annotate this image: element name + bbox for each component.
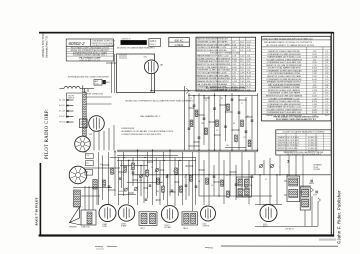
svg-text:R1: R1 xyxy=(100,164,102,166)
svg-text:1.25: 1.25 xyxy=(247,70,251,72)
svg-text:600 KC: 600 KC xyxy=(175,38,184,42)
node label speaker xyxy=(69,226,90,229)
svg-text:C12: C12 xyxy=(243,137,246,139)
svg-text:1.75: 1.75 xyxy=(325,54,329,56)
svg-text:C-31: C-31 xyxy=(313,82,317,84)
svg-text:LONG ISLAND CITY, N.Y.: LONG ISLAND CITY, N.Y. xyxy=(79,59,101,62)
svg-text:VOLUME CONTROL 1 MEG W/SWITCH: VOLUME CONTROL 1 MEG W/SWITCH xyxy=(197,58,231,60)
svg-text:2.8: 2.8 xyxy=(325,62,328,64)
svg-text:C9: C9 xyxy=(216,130,218,132)
svg-text:C-520: C-520 xyxy=(312,57,317,59)
svg-text:R-10: R-10 xyxy=(247,64,251,66)
tube V1 converter xyxy=(144,57,164,74)
wire bus xyxy=(199,195,272,197)
svg-text:1-31: 1-31 xyxy=(247,56,251,58)
svg-text:ITEM PILOT PART NO AND DESCRI: ITEM PILOT PART NO AND DESCRIPTION OF PA… xyxy=(263,37,314,40)
svg-text:0.7: 0.7 xyxy=(325,71,328,73)
wire filament bus xyxy=(255,226,318,228)
svg-text:VOL: VOL xyxy=(86,155,89,157)
svg-text:R-18: R-18 xyxy=(247,73,251,75)
wire xyxy=(127,182,162,184)
svg-text:A B C: A B C xyxy=(150,40,156,43)
node label speaker plug xyxy=(314,164,323,172)
svg-text:1.25: 1.25 xyxy=(232,42,236,44)
node title block box xyxy=(66,39,114,61)
svg-text:C3: C3 xyxy=(113,173,115,175)
svg-text:VOLUME CONTROL 1 MEG W/SWITCH: VOLUME CONTROL 1 MEG W/SWITCH xyxy=(266,59,302,61)
wire bus xyxy=(110,157,196,159)
svg-text:C4: C4 xyxy=(205,100,207,102)
svg-text:250: 250 xyxy=(226,145,229,147)
svg-text:1.25: 1.25 xyxy=(240,84,244,86)
svg-text:.05: .05 xyxy=(130,169,132,171)
node label IF cans xyxy=(140,228,188,230)
node label loop note xyxy=(84,93,103,96)
svg-text:PILOT RADIO CORP.: PILOT RADIO CORP. xyxy=(45,109,50,159)
svg-text:3-510: 3-510 xyxy=(312,96,317,98)
node KC alignment box xyxy=(169,38,190,47)
node blacked stamp bar xyxy=(117,38,155,50)
svg-text:2.8: 2.8 xyxy=(325,112,328,114)
svg-text:150V: 150V xyxy=(314,195,318,197)
svg-text:COIL ANT LOOP ASSEMBLY: COIL ANT LOOP ASSEMBLY xyxy=(92,44,116,47)
wire xyxy=(81,195,100,197)
svg-text:B+ 1.5V: B+ 1.5V xyxy=(59,111,66,113)
wire group to loop xyxy=(112,54,115,93)
transformer T5 2nd IF xyxy=(182,212,198,225)
wire bus xyxy=(117,155,178,157)
node parts list table middle xyxy=(196,37,256,91)
svg-text:C-31: C-31 xyxy=(240,81,244,83)
svg-text:B- 1.5V: B- 1.5V xyxy=(59,116,65,118)
svg-text:C-31: C-31 xyxy=(232,73,236,75)
svg-text:R-101: R-101 xyxy=(232,70,237,72)
svg-text:R4: R4 xyxy=(226,175,228,177)
wire bus xyxy=(188,95,258,97)
svg-text:0.35: 0.35 xyxy=(325,93,329,95)
svg-text:B MINUS BUSS: B MINUS BUSS xyxy=(122,128,136,130)
svg-text:ON-OFF: ON-OFF xyxy=(68,96,74,98)
resistor group R10-R17 xyxy=(190,104,251,147)
wire bottom border of schematic frame xyxy=(39,234,335,236)
svg-text:2.45: 2.45 xyxy=(325,109,329,111)
wire top border of schematic frame xyxy=(39,32,334,34)
svg-text:R-101: R-101 xyxy=(312,79,317,81)
svg-text:12.5: 12.5 xyxy=(313,93,317,95)
svg-text:1ST IF: 1ST IF xyxy=(140,228,145,230)
wire vertical group IF section xyxy=(189,93,258,150)
node arrows right xyxy=(311,188,321,202)
svg-text:1.75: 1.75 xyxy=(325,104,329,106)
wire vertical group bottom band xyxy=(99,150,196,211)
resistor R1 bias strip vertical xyxy=(83,92,87,152)
svg-text:PAGE 7-18 PILOT: PAGE 7-18 PILOT xyxy=(35,196,39,225)
svg-text:1.25: 1.25 xyxy=(240,50,244,52)
svg-text:ANT: ANT xyxy=(106,81,109,84)
node junction group bottom xyxy=(114,150,287,197)
svg-text:12.5: 12.5 xyxy=(232,84,236,86)
svg-text:1.25: 1.25 xyxy=(313,84,317,86)
svg-text:12.5: 12.5 xyxy=(313,59,317,61)
node label alignment notes xyxy=(122,128,174,136)
inductor L2 loop antenna frame xyxy=(117,54,155,93)
svg-text:R-18: R-18 xyxy=(232,44,236,46)
svg-text:R7: R7 xyxy=(173,171,175,173)
svg-text:C-52: C-52 xyxy=(240,89,244,91)
svg-text:IF AMP: IF AMP xyxy=(121,225,127,228)
svg-text:PRICES SUBJECT TO CHANGE WITHO: PRICES SUBJECT TO CHANGE WITHOUT NOTICE xyxy=(273,115,319,118)
svg-text:1-318: 1-318 xyxy=(312,71,317,73)
wire long vertical xyxy=(184,86,186,150)
svg-text:2-520: 2-520 xyxy=(312,76,317,78)
wire group to power transformer xyxy=(280,156,303,188)
svg-text:R6: R6 xyxy=(233,123,235,125)
svg-text:2ND IF: 2ND IF xyxy=(183,228,188,230)
tube V4 IF amplifier 12SK7 xyxy=(118,205,134,228)
svg-text:CONNECTIONS SHOWN DOTTED SEE: CONNECTIONS SHOWN DOTTED SEE NOTES xyxy=(122,134,162,136)
node label page mark 7 xyxy=(287,159,290,164)
node junction xyxy=(151,90,152,91)
wire xyxy=(118,194,136,196)
tube V6 output 50L6 xyxy=(201,206,216,228)
svg-text:1.25: 1.25 xyxy=(313,51,317,53)
node ANT terminal xyxy=(103,80,110,84)
svg-text:C-18: C-18 xyxy=(247,84,251,86)
wire xyxy=(284,181,311,195)
svg-text:CONV: CONV xyxy=(102,226,108,228)
tube V7 rectifier 35Z5 xyxy=(260,205,277,229)
svg-text:CONE COIL: CONE COIL xyxy=(81,227,90,229)
svg-text:C8: C8 xyxy=(151,167,153,169)
svg-text:MOUNTED ON CHASSIS BASE REAR A: MOUNTED ON CHASSIS BASE REAR APR 1 xyxy=(117,46,155,49)
svg-text:1-318: 1-318 xyxy=(312,104,317,106)
node parts list table right xyxy=(262,36,331,121)
svg-text:C-99: C-99 xyxy=(232,64,236,66)
wire xyxy=(225,146,246,148)
node battery terminals A+ A- B+ B- xyxy=(59,99,73,124)
svg-text:R-18: R-18 xyxy=(313,87,317,89)
svg-text:OUTPUT: OUTPUT xyxy=(203,226,210,228)
wire B minus buss double xyxy=(117,150,258,152)
node arrow xyxy=(186,88,189,94)
svg-text:3.15: 3.15 xyxy=(325,90,329,92)
node label electrolytic values xyxy=(309,178,317,197)
wire bus xyxy=(150,90,256,92)
svg-text:REV 2: REV 2 xyxy=(150,44,155,46)
svg-text:R-220: R-220 xyxy=(312,101,317,103)
tube V5 detector 12SQ7 xyxy=(161,206,178,229)
svg-text:12.5: 12.5 xyxy=(240,58,244,60)
inductor L1 loop antenna xyxy=(60,87,95,89)
wire bus xyxy=(117,159,196,161)
svg-text:RESISTOR 150 OHM 1W WIREWOUND: RESISTOR 150 OHM 1W WIREWOUND xyxy=(197,64,231,66)
svg-text:2.8: 2.8 xyxy=(325,87,328,89)
transformer T4 1st IF xyxy=(139,212,157,226)
svg-text:RESISTOR 22 MEG OHM 1/2W INS: RESISTOR 22 MEG OHM 1/2W INS xyxy=(268,101,300,103)
svg-text:.002: .002 xyxy=(156,191,159,193)
node detector network box xyxy=(236,177,251,197)
svg-text:.01: .01 xyxy=(161,182,163,184)
svg-text:1.05: 1.05 xyxy=(325,98,329,100)
svg-text:2.45: 2.45 xyxy=(325,84,329,86)
svg-text:DET AVC: DET AVC xyxy=(164,226,172,229)
svg-text:CONDENSER ELECT 40-40 MFD 150V: CONDENSER ELECT 40-40 MFD 150V xyxy=(267,62,302,64)
transformer T2 osc coil xyxy=(80,119,88,128)
svg-text:MODELS 500,TP10: MODELS 500,TP10 xyxy=(41,33,45,58)
resistor group R20-R33 xyxy=(103,163,248,197)
svg-text:SWITCH: SWITCH xyxy=(68,98,74,100)
svg-text:C-99: C-99 xyxy=(313,73,317,75)
svg-text:DIAL DRAWING NO. 2: DIAL DRAWING NO. 2 xyxy=(140,115,161,118)
node label line xyxy=(285,228,295,231)
svg-text:3-510: 3-510 xyxy=(312,62,317,64)
wire xyxy=(83,85,88,92)
svg-text:C-18: C-18 xyxy=(240,64,244,66)
wire xyxy=(67,93,83,118)
svg-text:3-51: 3-51 xyxy=(247,81,251,83)
wire xyxy=(120,165,148,167)
svg-text:CONDENSER TRIMMER 3-30 MMF: CONDENSER TRIMMER 3-30 MMF xyxy=(268,87,300,89)
capacitor C30 C31 electrolytic xyxy=(311,180,317,194)
svg-text:3.15: 3.15 xyxy=(325,65,329,67)
svg-text:1.75: 1.75 xyxy=(325,79,329,81)
svg-text:12.5: 12.5 xyxy=(232,50,236,52)
svg-text:C-99: C-99 xyxy=(313,107,317,109)
svg-text:RESISTOR 22 MEG OHM 1/2W INS: RESISTOR 22 MEG OHM 1/2W INS xyxy=(197,50,228,52)
svg-text:0.7: 0.7 xyxy=(325,96,328,98)
inductor L3 speaker field coil xyxy=(74,190,81,207)
svg-text:C-18: C-18 xyxy=(247,50,251,52)
svg-text:C-18: C-18 xyxy=(232,56,236,58)
speaker SP1 cone xyxy=(70,207,82,225)
capacitor group C20-C31 xyxy=(108,172,254,200)
wire xyxy=(73,187,112,189)
svg-text:R-10: R-10 xyxy=(240,44,244,46)
tube V2 oscillator xyxy=(89,116,105,136)
svg-text:CONDENSER ELECT 40-40 MFD 150V: CONDENSER ELECT 40-40 MFD 150V xyxy=(267,112,302,114)
svg-text:R-10: R-10 xyxy=(240,78,244,80)
connector J1 socket bottom view xyxy=(75,136,91,152)
svg-text:60502-2: 60502-2 xyxy=(69,41,86,46)
node stray pencil marks below page xyxy=(95,246,338,249)
wire xyxy=(83,89,85,93)
svg-text:ALL PRICES SUBJECT TO CHANGE W: ALL PRICES SUBJECT TO CHANGE WITHOUT NOT… xyxy=(267,44,315,47)
svg-text:C-520: C-520 xyxy=(232,81,237,83)
svg-text:GD 1.5V: GD 1.5V xyxy=(59,122,66,124)
svg-text:2.45: 2.45 xyxy=(325,59,329,61)
capacitor trimmer group xyxy=(124,164,275,192)
svg-text:1-31: 1-31 xyxy=(247,89,251,91)
svg-text:1-31: 1-31 xyxy=(240,70,244,72)
svg-text:COIL: COIL xyxy=(95,84,99,86)
svg-text:C5: C5 xyxy=(184,177,186,179)
svg-text:PILOT RADIO CORP LONG ISLAND: PILOT RADIO CORP LONG ISLAND CITY N Y xyxy=(276,118,317,121)
svg-text:2.1: 2.1 xyxy=(325,82,328,84)
transformer T7 filter xyxy=(300,187,310,210)
svg-text:40: 40 xyxy=(265,179,267,181)
node tube socket voltage table xyxy=(276,130,331,156)
svg-text:C-18: C-18 xyxy=(313,65,317,67)
node label component values bottom band xyxy=(100,164,267,193)
svg-text:R-18: R-18 xyxy=(313,54,317,56)
svg-text:C-99: C-99 xyxy=(240,73,244,75)
svg-text:REPLACEMENT PARTS LIST MODEL: REPLACEMENT PARTS LIST MODEL 500 TOPPERE… xyxy=(264,41,313,44)
svg-text:ALIGNMENT OF OSC AND ANT COILS: ALIGNMENT OF OSC AND ANT COILS AT EXTERN… xyxy=(122,130,174,133)
svg-text:C7: C7 xyxy=(241,103,243,105)
svg-text:VOLUME CONTROL 1 MEG W/SWITCH: VOLUME CONTROL 1 MEG W/SWITCH xyxy=(266,109,302,111)
svg-text:12.5: 12.5 xyxy=(247,78,251,80)
svg-text:MODEL 500 “TOPPERETTE” AC-DC: MODEL 500 “TOPPERETTE” AC-DC-BATTERY FIV… xyxy=(126,100,194,103)
svg-text:CTL: CTL xyxy=(86,162,89,164)
svg-text:1.4: 1.4 xyxy=(325,51,328,53)
svg-text:SCHEMATIC WIRING DIAGRAM DWG: SCHEMATIC WIRING DIAGRAM DWG 2 xyxy=(73,54,107,57)
node revision box ABC xyxy=(149,39,161,47)
wire xyxy=(106,62,116,64)
svg-text:2-520: 2-520 xyxy=(312,109,317,111)
svg-text:Schematic,Parts 7-18: Schematic,Parts 7-18 xyxy=(46,35,49,58)
node label model title xyxy=(126,100,194,103)
svg-text:C-520A: C-520A xyxy=(175,43,184,47)
svg-text:3.15: 3.15 xyxy=(325,115,329,117)
capacitor group C10-C19 xyxy=(188,99,254,138)
svg-text:C-99: C-99 xyxy=(247,58,251,60)
svg-text:C-31: C-31 xyxy=(247,67,251,69)
svg-text:RESISTOR 22 MEG OHM 1/2W INS: RESISTOR 22 MEG OHM 1/2W INS xyxy=(268,51,300,53)
svg-text:R-18: R-18 xyxy=(232,78,236,80)
svg-text:©John F. Rider, Publisher: ©John F. Rider, Publisher xyxy=(337,190,342,244)
svg-text:1R5: 1R5 xyxy=(89,134,92,136)
connector J2 socket bottom view xyxy=(69,166,87,184)
node junction group xyxy=(188,90,246,151)
wire right border double rule xyxy=(331,32,334,237)
transformer T1 antenna coil can xyxy=(94,80,102,86)
wire xyxy=(84,167,120,169)
node label switch S1 xyxy=(68,96,74,100)
svg-text:2.1: 2.1 xyxy=(325,57,328,59)
svg-text:C-52: C-52 xyxy=(240,56,244,58)
node label dial drawing xyxy=(140,115,161,118)
wire group oscillator to buss xyxy=(94,125,114,150)
wire xyxy=(255,204,282,206)
node loop turns marks xyxy=(120,54,126,59)
wire links to loop xyxy=(86,97,111,104)
svg-text:R-101: R-101 xyxy=(312,112,317,114)
wire group right xyxy=(305,196,318,226)
wire vertical group right band xyxy=(199,152,277,205)
transformer T6 power xyxy=(287,176,300,202)
svg-text:1.4: 1.4 xyxy=(325,76,328,78)
svg-text:2-520: 2-520 xyxy=(232,67,237,69)
svg-text:1A7: 1A7 xyxy=(160,64,163,67)
svg-text:12.5: 12.5 xyxy=(247,44,251,46)
svg-text:2.1: 2.1 xyxy=(325,107,328,109)
svg-text:1.05: 1.05 xyxy=(325,73,329,75)
svg-text:SOCKET: SOCKET xyxy=(314,169,321,171)
wire bus B plus xyxy=(132,174,331,176)
svg-text:R-220: R-220 xyxy=(232,58,237,60)
transformer T3 output xyxy=(81,210,96,225)
svg-text:.05: .05 xyxy=(211,185,213,187)
svg-text:R-22: R-22 xyxy=(247,87,251,89)
svg-text:R2: R2 xyxy=(221,98,223,100)
svg-text:C-18: C-18 xyxy=(313,98,317,100)
svg-text:CONDENSER VALUES IN MFD: CONDENSER VALUES IN MFD xyxy=(212,89,240,92)
wire group speaker section xyxy=(85,186,97,210)
svg-text:C-52: C-52 xyxy=(247,42,251,44)
svg-text:RESISTOR 150 OHM 1W WIREWOUND: RESISTOR 150 OHM 1W WIREWOUND xyxy=(266,65,302,67)
wire xyxy=(150,74,152,91)
tube V3 converter 12SA7 xyxy=(99,205,116,229)
svg-text:EXTERNAL ANT AND GND CONNECTIO: EXTERNAL ANT AND GND CONNECTIONS SHOWN xyxy=(68,76,109,79)
node label component values IF section xyxy=(190,98,249,147)
svg-text:LINE VOLTAGE 117 V AC NO SIGN: LINE VOLTAGE 117 V AC NO SIGNAL INPUT xyxy=(286,153,323,156)
svg-text:0.35: 0.35 xyxy=(325,68,329,70)
wire left border lower segment xyxy=(40,163,42,236)
node label MODELS edge text xyxy=(41,33,49,58)
resistor R5 volume control stack xyxy=(85,154,97,190)
svg-text:R-22: R-22 xyxy=(240,67,244,69)
wire link group IF section xyxy=(188,97,252,146)
svg-text:R-220: R-220 xyxy=(312,68,317,70)
svg-text:2-52: 2-52 xyxy=(240,42,244,44)
wire link group bottom band xyxy=(102,161,250,200)
svg-text:C-520: C-520 xyxy=(312,90,317,92)
svg-text:1.4: 1.4 xyxy=(325,101,328,103)
node label antenna note xyxy=(68,76,109,79)
